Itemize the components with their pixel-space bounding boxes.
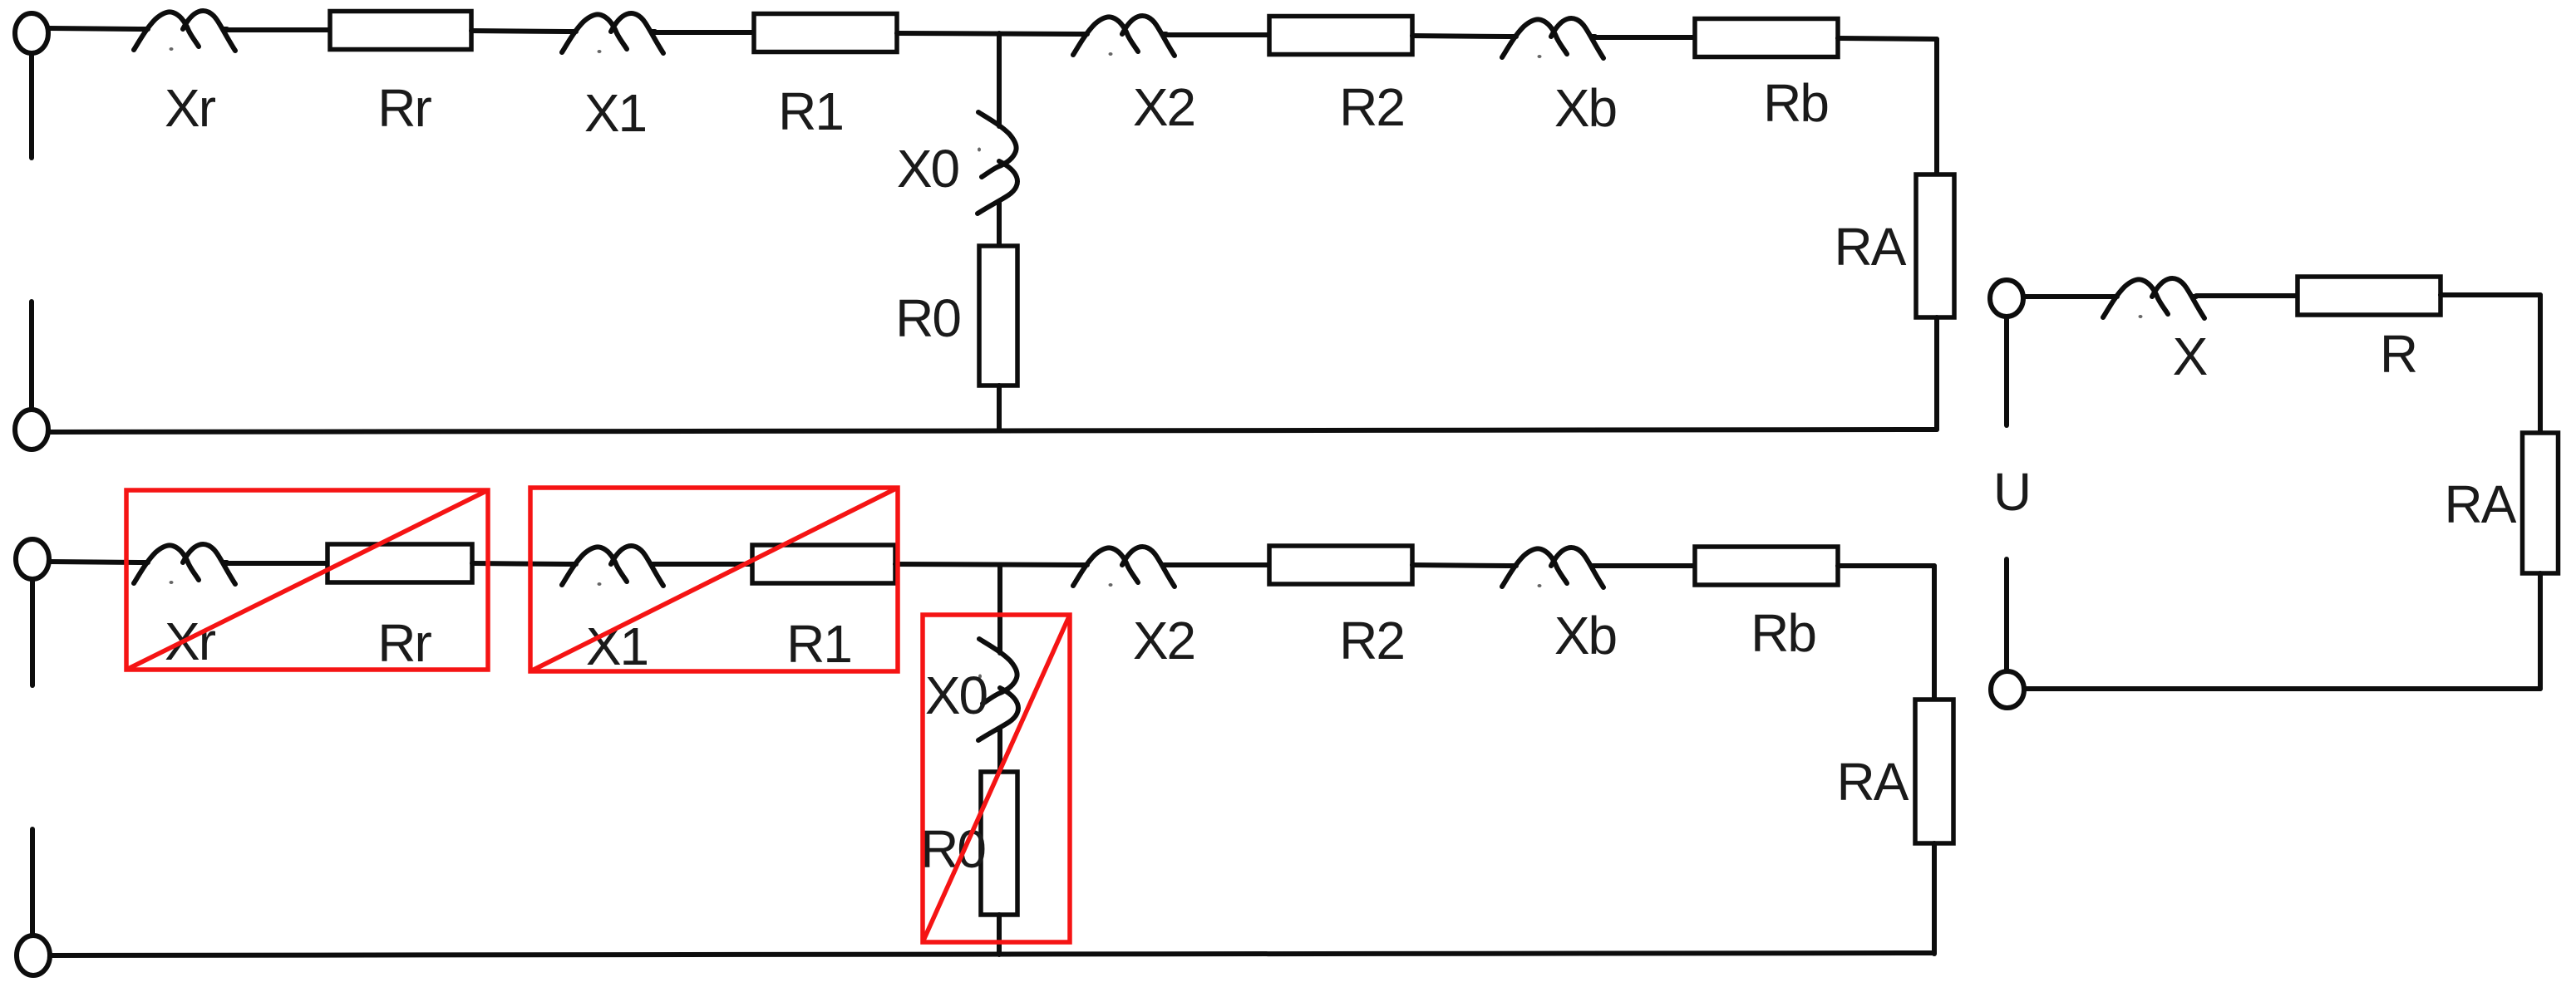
resistor Rb (bottom circuit) (1695, 547, 1838, 585)
wire top circuit: R2 to Xb (1412, 36, 1507, 37)
wire top circuit: Xb to Rb (1595, 35, 1695, 40)
svg-text:Xb: Xb (1554, 606, 1616, 665)
wire top circuit: node J1 down to X0 (997, 33, 1002, 117)
terminal top-left of bottom circuit (16, 539, 49, 579)
wire top circuit: R1 to X2 through node J1 (897, 33, 1078, 34)
resistor Rr (top circuit) (330, 12, 471, 50)
svg-text:X1: X1 (584, 83, 646, 143)
svg-text:X0: X0 (897, 139, 959, 199)
svg-text:R2: R2 (1339, 611, 1404, 670)
resistor R (equivalent circuit) (2298, 277, 2441, 315)
inductor Xb (bottom circuit) (1502, 548, 1603, 587)
wire top circuit: R0 down to bottom wire (997, 386, 1002, 430)
wire top circuit: RA to bottom-right corner (1934, 317, 1939, 430)
svg-text:R: R (2380, 324, 2416, 384)
wire bottom circuit: Xb to Rb (1595, 563, 1695, 568)
wire top circuit: Xr to Rr (227, 27, 330, 32)
wire bottom circuit: RA to bottom-right corner (1932, 843, 1937, 954)
wire equivalent circuit: X to R (2196, 293, 2298, 298)
resistor R0 (top circuit) (979, 246, 1017, 386)
resistor R0 (bottom circuit, shorted) (981, 772, 1017, 915)
inductor Xb (top circuit) (1502, 18, 1603, 58)
red deletion box over Xr and Rr (bottom circuit) (126, 490, 488, 670)
resistor Rb (top circuit) (1695, 19, 1838, 57)
inductor X2 (top circuit) (1073, 16, 1175, 56)
wire stub below top-left terminal (bottom circuit) (30, 579, 35, 685)
resistor RA (bottom circuit) (1915, 700, 1953, 843)
wire top circuit: bottom return wire (49, 430, 1937, 432)
wire bottom circuit: bottom return wire (50, 953, 1934, 955)
wire equivalent circuit: right side down to RA (2538, 295, 2543, 435)
svg-text:X0: X0 (925, 665, 988, 725)
inductor X0 (top circuit) (978, 112, 1017, 214)
red deletion box over X0 and R0 (bottom circuit) (923, 615, 1070, 942)
terminal U+ of equivalent circuit (1990, 280, 2023, 317)
svg-text:X: X (2173, 327, 2208, 386)
svg-text:X1: X1 (586, 616, 648, 676)
inductor Xr (top circuit) (134, 11, 235, 51)
wire bottom circuit: X2 to R2 (1166, 562, 1269, 567)
resistor R2 (bottom circuit) (1269, 546, 1412, 584)
svg-text:U: U (1993, 462, 2030, 522)
inductor X1 (top circuit) (562, 13, 663, 53)
wire bottom circuit: R2 to Xb (1412, 565, 1507, 566)
wire stub above bottom-left terminal (bottom circuit) (30, 829, 35, 935)
wire equivalent circuit: R to top-right corner (2441, 292, 2540, 297)
wire bottom circuit: Rr to X1 (472, 563, 567, 564)
svg-text:RA: RA (1837, 752, 1909, 812)
wire bottom circuit: node J2 down to X0 (997, 565, 1002, 644)
inductor X1 (bottom circuit, shorted) (562, 546, 663, 586)
wire top circuit: X0 to R0 (997, 205, 1002, 248)
wire bottom circuit: X1 to R1 (655, 562, 752, 567)
wire top circuit: Rr to X1 (471, 31, 567, 32)
inductor X0 (bottom circuit, shorted) (978, 639, 1018, 740)
svg-text:X2: X2 (1133, 611, 1194, 670)
resistor R2 (top circuit) (1269, 17, 1412, 55)
wire bottom circuit: X0 to R0 (997, 732, 1002, 773)
wire top circuit: Rb to top-right corner (1838, 38, 1937, 39)
terminal U- of equivalent circuit (1991, 671, 2024, 708)
wire top circuit: X1 to R1 (655, 30, 754, 35)
wire bottom circuit: terminal to Xr (49, 562, 139, 562)
wire equivalent circuit: RA down to bottom-right corner (2538, 573, 2543, 689)
wire equivalent circuit: bottom return wire (2026, 686, 2540, 691)
wire stub below U+ terminal (2004, 318, 2009, 425)
inductor X2 (bottom circuit) (1073, 547, 1175, 587)
wire bottom circuit: R0 down to bottom wire (997, 915, 1002, 955)
wire bottom circuit: R1 to X2 through node J2 (895, 564, 1078, 565)
resistor R1 (top circuit) (754, 14, 897, 52)
svg-text:RA: RA (2445, 474, 2517, 534)
terminal bottom-left of top circuit (15, 410, 48, 449)
wire bottom circuit: Rb to top-right corner (1838, 563, 1934, 568)
wire top circuit: X2 to R2 (1166, 32, 1269, 37)
svg-text:R1: R1 (778, 81, 843, 141)
wire stub below top-left terminal (top circuit) (29, 54, 34, 158)
resistor RA (top circuit) (1916, 174, 1954, 317)
wire top circuit: right side down to RA (1934, 39, 1939, 176)
svg-text:Rb: Rb (1763, 73, 1828, 133)
resistor R1 (bottom circuit, shorted) (752, 545, 895, 583)
svg-text:R1: R1 (786, 614, 851, 674)
wire top circuit: terminal to Xr (48, 28, 139, 29)
svg-text:Xb: Xb (1554, 78, 1616, 138)
svg-text:Xr: Xr (165, 611, 216, 671)
svg-text:X2: X2 (1133, 77, 1194, 137)
inductor Xr (bottom circuit, shorted) (134, 544, 235, 584)
svg-text:Rb: Rb (1751, 603, 1815, 663)
wire stub above bottom-left terminal (top circuit) (29, 302, 34, 409)
terminal bottom-left of bottom circuit (17, 936, 50, 975)
svg-text:Xr: Xr (165, 78, 216, 138)
wire bottom circuit: right side down to RA (1932, 566, 1937, 701)
wire equivalent circuit: U+ to X (2023, 294, 2108, 299)
svg-text:R0: R0 (895, 288, 960, 348)
wire stub above U- terminal (2004, 559, 2009, 670)
svg-text:Rr: Rr (377, 613, 431, 673)
wire bottom circuit: Xr to Rr (227, 561, 328, 566)
inductor X (equivalent circuit) (2103, 278, 2204, 318)
terminal top-left of top circuit (15, 13, 48, 53)
svg-text:R2: R2 (1339, 77, 1404, 137)
svg-text:RA: RA (1835, 217, 1907, 277)
svg-text:Rr: Rr (377, 78, 431, 138)
resistor RA (equivalent circuit) (2523, 433, 2559, 573)
red deletion box over X1 and R1 (bottom circuit) (530, 488, 898, 671)
resistor Rr (bottom circuit, shorted) (328, 544, 472, 582)
